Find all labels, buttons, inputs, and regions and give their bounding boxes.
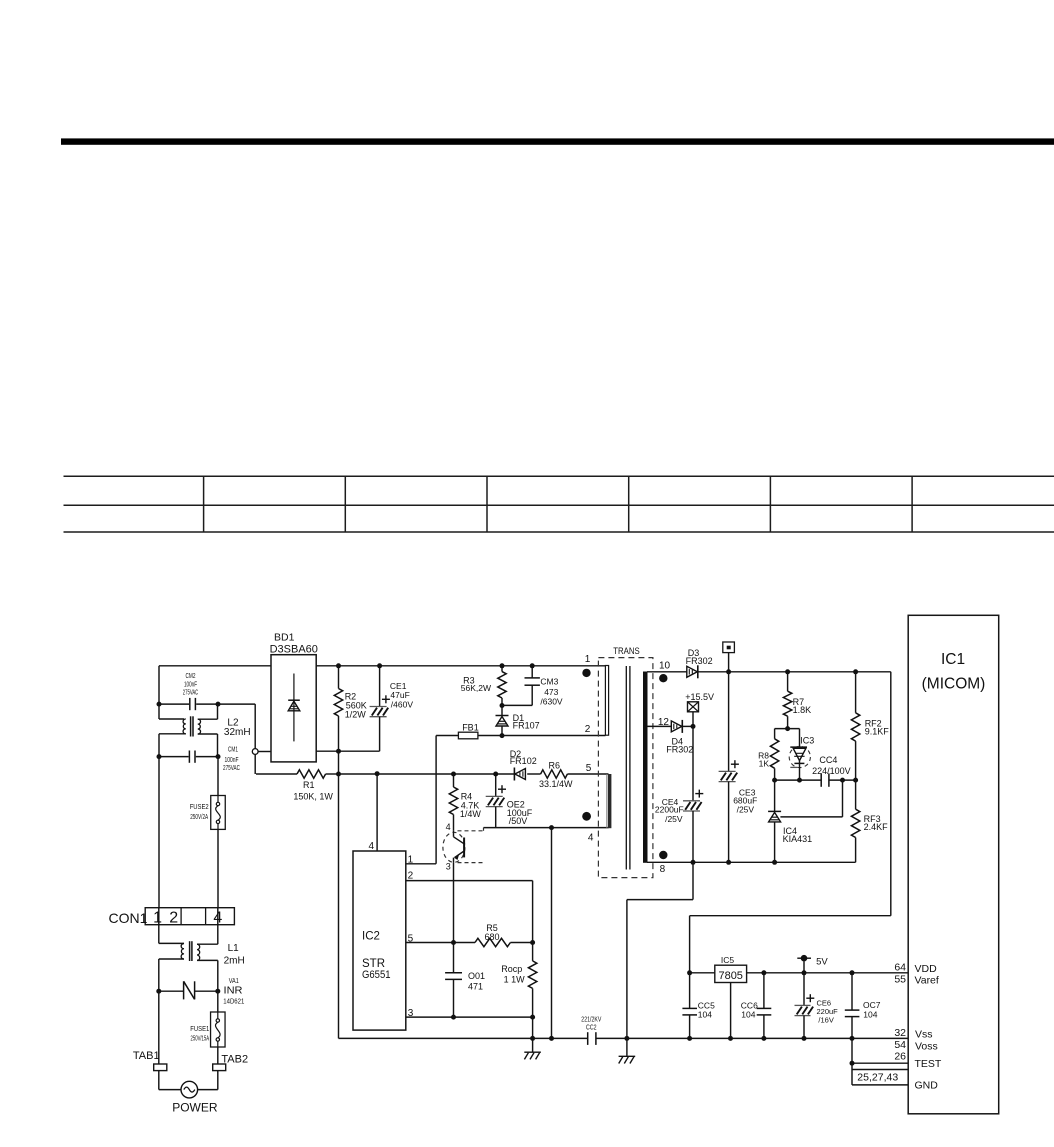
ground primary <box>524 1038 541 1059</box>
svg-text:R1: R1 <box>303 780 315 790</box>
node CC4 right <box>840 778 845 783</box>
svg-text:TRANS: TRANS <box>613 646 640 656</box>
svg-text:TEST: TEST <box>915 1058 942 1070</box>
svg-text:150K, 1W: 150K, 1W <box>293 791 333 801</box>
pin 26 TEST <box>894 1050 942 1070</box>
svg-text:CM2: CM2 <box>186 673 196 680</box>
node drop gnd <box>549 1036 554 1041</box>
node IC5 in <box>687 970 692 975</box>
inductor L1 <box>159 925 245 992</box>
svg-text:GND: GND <box>915 1079 939 1091</box>
svg-text:2.4KF: 2.4KF <box>864 822 889 832</box>
node CM2 left <box>157 702 162 707</box>
svg-text:IC1: IC1 <box>941 651 965 668</box>
transformer secondary winding <box>644 661 671 876</box>
wire R2 long vertical to ground rail <box>338 716 340 1038</box>
node open circle <box>252 749 258 755</box>
capacitor CC2 221/2KV <box>581 1017 601 1045</box>
node CM1 right <box>216 754 221 759</box>
wire FB1 drop to IC2 pin1 <box>406 736 436 864</box>
svg-text:FUSE2: FUSE2 <box>190 804 209 811</box>
svg-text:CC2: CC2 <box>586 1025 597 1032</box>
svg-text:250V/2A: 250V/2A <box>190 814 208 821</box>
node CE3 bottom <box>726 860 731 865</box>
svg-text:/25V: /25V <box>737 805 755 815</box>
node OC7 gnd <box>850 1036 855 1041</box>
transistor Q1 (dashed option) <box>443 822 484 872</box>
svg-text:+15.5V: +15.5V <box>685 692 714 702</box>
node TEST <box>850 1061 855 1066</box>
svg-text:4: 4 <box>588 833 594 844</box>
node RF2 top <box>853 669 858 674</box>
transformer primary winding 5-4 <box>586 763 612 844</box>
inductor L2 common-mode choke <box>159 704 251 757</box>
node pin5 right <box>530 940 535 945</box>
pin 25,27,43 GND box <box>852 1070 938 1092</box>
svg-text:Voss: Voss <box>915 1041 938 1053</box>
node VA1 right <box>215 989 220 994</box>
wire node to BD1 <box>258 751 271 753</box>
shunt regulator IC4 KIA431 <box>768 780 812 862</box>
wire TEST drop <box>851 1038 853 1085</box>
resistor R3 <box>461 666 506 706</box>
svg-text:1: 1 <box>153 910 162 927</box>
pin 64 VDD <box>894 961 937 975</box>
wire 774 rail after D2 <box>527 773 540 775</box>
node R8 bottom <box>772 778 777 783</box>
svg-text:VA1: VA1 <box>229 978 239 985</box>
svg-text:CM3: CM3 <box>540 677 558 687</box>
svg-text:FR102: FR102 <box>510 756 537 766</box>
wire left vertical to CON1 <box>158 757 160 908</box>
node R2 bottom <box>336 749 341 754</box>
svg-text:1: 1 <box>585 654 591 665</box>
opto diode IC3 <box>789 729 814 781</box>
net +15.5V <box>685 692 714 727</box>
regulator IC5 7805 <box>690 955 909 1039</box>
svg-text:1.8K: 1.8K <box>793 705 812 715</box>
wire left vertical upper <box>158 666 160 719</box>
wire secondary bottom rail <box>647 861 856 863</box>
svg-text:8: 8 <box>660 864 666 875</box>
node CE1 top <box>377 663 382 668</box>
node pin12 <box>691 724 696 729</box>
svg-text:471: 471 <box>468 982 483 992</box>
node R7 top <box>785 669 790 674</box>
svg-text:4: 4 <box>368 841 374 852</box>
wire pin8 drop to ground <box>627 862 693 1038</box>
node CE6 gnd <box>802 1036 807 1041</box>
ferrite bead FB1 <box>436 723 502 739</box>
transformer core <box>626 666 630 870</box>
node pin3 left <box>451 1015 456 1020</box>
svg-text:/630V: /630V <box>540 697 563 707</box>
svg-text:2: 2 <box>169 910 178 927</box>
svg-text:473: 473 <box>544 687 558 697</box>
node pin4 top <box>375 771 380 776</box>
capacitor CM1 <box>159 746 240 771</box>
resistor R1 <box>256 770 339 802</box>
wire primary ground rail <box>339 1037 909 1039</box>
wire FUSE2 to CON1 <box>217 829 219 907</box>
diode D4 FR302 <box>666 720 693 755</box>
node CM1 left <box>157 754 162 759</box>
node fb RF junction <box>853 778 858 783</box>
wire secondary top rail <box>647 671 891 673</box>
node CM3 top <box>530 663 535 668</box>
wire 774 rail after R6 <box>567 773 608 775</box>
svg-text:1/2W: 1/2W <box>345 710 367 720</box>
node rocp gnd <box>530 1036 535 1041</box>
wire TEST <box>852 1062 908 1064</box>
svg-text:26: 26 <box>894 1050 906 1062</box>
node CE4 bottom <box>691 860 696 865</box>
wire ref line to IC4 <box>780 780 842 817</box>
ground secondary <box>619 1038 636 1063</box>
svg-text:47uF: 47uF <box>390 690 409 700</box>
wire IC2 pin2 <box>406 881 533 961</box>
svg-text:FB1: FB1 <box>462 723 479 733</box>
wire node down to R1 <box>254 754 256 774</box>
net marker square <box>723 642 735 672</box>
svg-text:1/4W: 1/4W <box>460 809 482 819</box>
capacitor OE2 <box>486 774 533 828</box>
svg-text:2: 2 <box>408 870 414 881</box>
wire IC2 pin5 <box>406 942 475 944</box>
power source POWER <box>159 1071 218 1115</box>
wire pin2 line to transformer <box>502 735 606 737</box>
terminal TAB1 <box>133 991 167 1070</box>
svg-text:9.1KF: 9.1KF <box>865 727 890 737</box>
node pin3 right <box>530 1015 535 1020</box>
wire right vertical to FUSE2 <box>217 757 219 796</box>
svg-text:TAB2: TAB2 <box>221 1053 248 1065</box>
wire top rail right of BD1 <box>316 665 605 667</box>
resistor R2 <box>334 666 366 720</box>
svg-text:104: 104 <box>698 1010 712 1020</box>
svg-text:D3SBA60: D3SBA60 <box>270 644 318 656</box>
wire feedback line 780 <box>775 779 856 781</box>
svg-text:64: 64 <box>894 961 906 973</box>
svg-text:/16V: /16V <box>818 1016 833 1025</box>
node R7 bottom <box>785 726 790 731</box>
svg-text:Rocp: Rocp <box>501 964 522 974</box>
fuse FUSE2 <box>190 796 226 830</box>
capacitor CE6 220uF/16V <box>795 973 839 1039</box>
pin 54 Voss <box>894 1039 937 1052</box>
svg-text:INR: INR <box>224 986 243 997</box>
capacitor CE1 <box>370 666 414 751</box>
svg-text:O01: O01 <box>468 971 485 981</box>
node pin5 emitter <box>451 940 456 945</box>
wire top rail left <box>159 665 271 667</box>
wire OE2 bottom line to pin4 <box>484 827 609 829</box>
svg-text:5V: 5V <box>816 956 828 967</box>
wire pin12 line <box>647 725 671 727</box>
wire main 774 rail <box>339 773 515 775</box>
svg-text:224/100V: 224/100V <box>812 766 851 776</box>
svg-text:32mH: 32mH <box>224 727 251 738</box>
svg-text:250V/15A: 250V/15A <box>191 1036 210 1043</box>
capacitor CC6 104 <box>741 973 772 1039</box>
node R1 right <box>336 772 341 777</box>
capacitor CE4 <box>655 726 703 862</box>
svg-text:104: 104 <box>741 1010 755 1020</box>
svg-text:3: 3 <box>446 862 451 872</box>
empty parts table <box>64 476 1054 532</box>
svg-text:CC4: CC4 <box>819 755 837 765</box>
svg-text:275VAC: 275VAC <box>183 690 199 697</box>
svg-text:1K: 1K <box>759 758 770 768</box>
svg-text:Varef: Varef <box>915 974 939 986</box>
svg-text:/50V: /50V <box>509 816 528 826</box>
resistor R4 <box>449 774 481 831</box>
svg-text:4: 4 <box>213 910 222 927</box>
wire BD1 bottom rail <box>316 750 379 752</box>
node OE2 top <box>493 772 498 777</box>
node secondary gnd <box>624 1036 629 1041</box>
svg-text:FR107: FR107 <box>513 721 540 731</box>
node marker rail <box>726 669 731 674</box>
wire IC2 pin3 <box>406 1016 533 1018</box>
wire right rail to 5V reg <box>690 672 891 973</box>
node IC5 gnd <box>728 1036 733 1041</box>
node R3 top <box>500 663 505 668</box>
resistor R6 <box>539 761 573 789</box>
phase dot winding 10 <box>659 674 667 682</box>
svg-text:56K,2W: 56K,2W <box>461 683 491 693</box>
svg-text:100nF: 100nF <box>225 757 239 764</box>
svg-text:FR302: FR302 <box>686 656 713 666</box>
phase dot winding 1 <box>582 669 590 677</box>
resistor RF2 9.1KF <box>851 672 889 780</box>
wire IC2 pin4 <box>368 774 377 852</box>
svg-text:275VAC: 275VAC <box>223 765 240 772</box>
terminal TAB2 <box>213 1053 248 1070</box>
wire long drop to ground rail <box>551 828 553 1039</box>
svg-text:25,27,43: 25,27,43 <box>857 1072 898 1084</box>
svg-text:55: 55 <box>894 973 906 985</box>
svg-text:5: 5 <box>586 763 592 774</box>
resistor R8 1K <box>758 729 779 781</box>
svg-text:100nF: 100nF <box>184 682 197 689</box>
node OC7 top <box>850 970 855 975</box>
node CM2 right <box>216 702 221 707</box>
svg-text:10: 10 <box>659 661 671 672</box>
svg-text:CON1: CON1 <box>109 910 148 926</box>
svg-text:CM1: CM1 <box>228 746 238 753</box>
bridge rectifier BD1 <box>270 632 318 762</box>
svg-text:/460V: /460V <box>391 700 414 710</box>
wire CM2 right to bridge <box>218 704 255 749</box>
node IC4 bottom rail <box>772 860 777 865</box>
varistor VA1 INR14D621 <box>159 978 245 1006</box>
node D1 bottom <box>500 733 505 738</box>
capacitor CM3 <box>502 666 563 707</box>
capacitor CE3 <box>719 672 758 863</box>
svg-text:33.1/4W: 33.1/4W <box>539 779 573 789</box>
node R3 bottom <box>500 703 505 708</box>
svg-text:POWER: POWER <box>172 1101 218 1115</box>
node R2 top <box>336 663 341 668</box>
svg-text:221/2KV: 221/2KV <box>581 1017 601 1024</box>
svg-text:1: 1 <box>408 855 414 866</box>
connector CON1 <box>109 908 235 927</box>
svg-text:2mH: 2mH <box>224 956 245 967</box>
wire R7 junction bar <box>775 728 800 730</box>
node CC6 top <box>761 970 766 975</box>
svg-text:(MICOM): (MICOM) <box>922 676 986 693</box>
fuse FUSE1 <box>190 991 225 1064</box>
svg-text:IC2: IC2 <box>362 930 380 942</box>
svg-text:KIA431: KIA431 <box>783 834 813 844</box>
svg-text:7805: 7805 <box>718 970 742 982</box>
svg-text:/25V: /25V <box>665 814 683 824</box>
svg-text:14D621: 14D621 <box>223 999 244 1006</box>
wire emitter vertical <box>453 863 455 1018</box>
transformer primary winding 1-2 <box>585 654 609 735</box>
svg-text:1 1W: 1 1W <box>504 974 526 984</box>
diode D2 FR102 <box>510 749 537 781</box>
capacitor OC7 104 <box>845 973 881 1039</box>
node IC3 bottom <box>797 778 802 783</box>
resistor R5 680 <box>475 923 533 947</box>
resistor Rocp <box>501 961 537 1039</box>
pin 32 Vss <box>894 1027 932 1040</box>
node VA1 left <box>156 989 161 994</box>
svg-text:IC5: IC5 <box>721 955 735 965</box>
capacitor CC5 104 <box>682 973 715 1039</box>
svg-text:104: 104 <box>863 1010 877 1020</box>
capacitor O01 471 <box>445 971 485 991</box>
svg-text:680: 680 <box>484 932 499 942</box>
svg-text:R6: R6 <box>549 761 561 771</box>
resistor RF3 2.4KF <box>851 780 888 862</box>
capacitor CC4 224/100V <box>812 755 851 787</box>
svg-text:L1: L1 <box>228 943 240 954</box>
node CC6 gnd <box>761 1036 766 1041</box>
phase dot winding 5-4 <box>582 812 591 821</box>
net 5V <box>797 955 828 973</box>
resistor R7 1.8K <box>783 672 811 729</box>
capacitor CM2 <box>159 673 218 710</box>
svg-text:4: 4 <box>446 822 451 832</box>
IC IC2 STR G6551 <box>353 851 406 1030</box>
svg-text:CE6: CE6 <box>817 998 832 1007</box>
svg-text:G6551: G6551 <box>362 969 391 981</box>
node R4 top <box>451 772 456 777</box>
svg-text:FR302: FR302 <box>666 745 693 755</box>
svg-text:IC3: IC3 <box>800 736 814 746</box>
svg-text:2: 2 <box>585 724 591 735</box>
diode D1 FR107 <box>496 706 540 736</box>
svg-text:FUSE1: FUSE1 <box>190 1026 209 1033</box>
pin 55 Varef <box>894 973 939 986</box>
diode D3 FR302 <box>686 648 713 678</box>
microcontroller IC1 MICOM <box>908 615 999 1114</box>
node OE2 line branch <box>549 825 554 830</box>
phase dot winding 8 <box>659 851 667 859</box>
node CE6 top <box>802 970 807 975</box>
svg-text:BD1: BD1 <box>274 632 295 644</box>
header rule bar <box>61 138 1054 144</box>
node CC5 gnd <box>687 1036 692 1041</box>
svg-text:32: 32 <box>894 1027 906 1039</box>
svg-text:TAB1: TAB1 <box>133 1050 160 1062</box>
svg-text:Vss: Vss <box>915 1029 933 1041</box>
transformer TRANS dashed box <box>598 646 653 877</box>
